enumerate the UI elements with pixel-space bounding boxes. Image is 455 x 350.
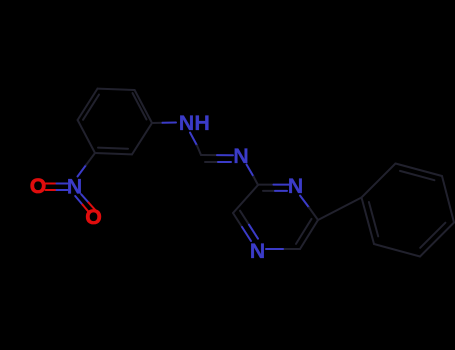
svg-text:N: N [67,174,83,198]
double bond N=O line A [75,196,82,205]
bond N imine to pyrazine C2 [247,165,254,177]
svg-text:NH: NH [179,111,210,135]
inner double V5-V6 [98,148,128,149]
double bond C3=N4 inner line [240,211,249,225]
double bond O=N lower line [46,189,57,191]
bond N1 to C6 (phenyl-bearing) [300,196,309,208]
wire V3-V4 [78,89,98,120]
bond C6 to phenyl ipso [318,198,362,221]
wire P2-P3 [396,164,443,177]
bond C5 to N4 [283,248,300,250]
inner double P2-P3 [400,171,434,180]
svg-text:N: N [250,239,266,263]
bond NH to amidine C [190,133,197,146]
wire ipso-P2 [362,164,396,198]
bond C6-C5 with inner double [300,220,318,249]
double bond C3=N4 main line [233,213,242,227]
double bond O=N upper line [46,183,57,185]
pyrazine C2=N1 inner line [263,190,275,192]
inner double V3-V4 [83,95,99,120]
svg-text:N: N [288,174,304,198]
double bond C=N (imine) main line [201,154,217,156]
wire V5-V6 [95,153,132,154]
inner double P4-P5 [420,223,445,248]
double bond N=O line B [81,194,88,202]
wire V4-V5 [78,120,95,153]
wire V6-V1 [132,123,152,154]
wire P4-P5 [420,223,454,257]
bond C3 to C2 [233,185,258,213]
inner double V1-V2 [133,93,147,120]
wire P6-ipso [362,198,375,245]
svg-text:O: O [30,175,46,198]
wire V2-V3 [98,89,135,90]
pyrazine C2=N1 double bond main [258,184,274,186]
wire P3-P4 [442,176,454,223]
phenyl ring dark bonds [362,164,455,257]
wire V1-V2 [135,90,152,123]
svg-text:O: O [85,206,101,229]
double bond C=N inner line [205,161,218,163]
bond ring-C1 to NH (half dark, half blue) [152,122,163,124]
benzene ring (3-nitrophenyl) dark bonds [78,89,152,155]
wire P5-P6 [374,244,420,257]
bond N nitro to ring C3' [78,165,87,177]
inner double P6-ipso [369,202,378,236]
